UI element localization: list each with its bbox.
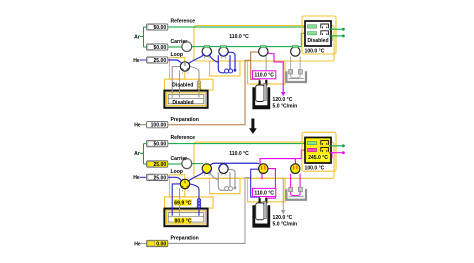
wire furnace outlet line bbox=[265, 57, 267, 82]
svg-text:110.0 °C: 110.0 °C bbox=[254, 190, 274, 196]
svg-text:50.00: 50.00 bbox=[153, 25, 166, 31]
svg-text:Reference: Reference bbox=[171, 135, 196, 141]
wire He preparation supply bbox=[141, 242, 146, 244]
svg-text:He: He bbox=[134, 241, 141, 247]
svg-text:110.0 °C: 110.0 °C bbox=[229, 34, 249, 40]
TCD detector body bbox=[305, 137, 331, 163]
valve V5 (vapor select) bbox=[180, 179, 189, 189]
wire vaporizer middle leg bbox=[179, 188, 181, 210]
wire TCD reference outlet bbox=[329, 28, 343, 30]
mass flow controller carrier bbox=[147, 161, 168, 167]
furnace sample tube stubs bbox=[259, 198, 261, 205]
cold trap vessel bbox=[286, 71, 306, 82]
wire vaporizer middle leg bbox=[179, 71, 181, 93]
wire valve4 riser (magenta) bbox=[294, 159, 296, 165]
furnace sample tube stubs bbox=[259, 81, 261, 88]
wire He supply bbox=[140, 59, 146, 61]
heated valve zone box (110.0 C oven) bbox=[194, 142, 334, 178]
valve V2 (loop select) bbox=[219, 164, 228, 174]
TCD reference cell bbox=[308, 25, 317, 28]
mass flow controller preparation bbox=[147, 122, 168, 128]
wire TCD drain stub bbox=[331, 153, 333, 158]
cold trap tube bbox=[291, 57, 301, 78]
loop vent endpoint bbox=[234, 186, 237, 189]
wire carrier line to loop valve bbox=[168, 163, 203, 165]
wire Ar supply bbox=[140, 144, 146, 164]
furnace vessel bbox=[252, 87, 270, 109]
valve V2 (loop select) bbox=[219, 47, 228, 56]
svg-text:0.00: 0.00 bbox=[156, 241, 166, 247]
svg-text:Carrier: Carrier bbox=[171, 39, 188, 45]
svg-text:Ar: Ar bbox=[134, 151, 140, 157]
heater coil symbol bbox=[197, 81, 200, 84]
mass flow controller reference bbox=[147, 140, 168, 146]
svg-text:Loop: Loop bbox=[171, 169, 183, 175]
loop-valve heater zone box bbox=[170, 175, 185, 197]
svg-text:69.9 °C: 69.9 °C bbox=[174, 200, 191, 206]
furnace zone box bbox=[248, 61, 286, 84]
thermocouple bbox=[264, 83, 267, 100]
svg-text:110.0 °C: 110.0 °C bbox=[254, 73, 274, 79]
valve V3 (sample bypass) bbox=[259, 164, 268, 174]
valve V2 port ticks bbox=[221, 57, 226, 58]
wire loop gas line bbox=[168, 60, 182, 64]
sample loop heater zone box bbox=[210, 178, 241, 193]
wire reference line to TCD bbox=[168, 26, 307, 28]
valve V5 (vapor select) bbox=[180, 62, 189, 71]
wire vaporizer left leg bbox=[172, 67, 180, 93]
wire loop valve to valve V1 bbox=[189, 55, 204, 64]
loop vent endpoint bbox=[234, 69, 237, 72]
wire detector feed line (magenta) bbox=[260, 150, 308, 165]
valve V5 port ticks bbox=[183, 72, 189, 74]
heater coil symbol bbox=[197, 199, 200, 202]
wire furnace inlet line bbox=[251, 169, 260, 201]
wire vaporizer left leg bbox=[172, 184, 180, 210]
wire loop vent line bbox=[229, 169, 236, 186]
valve V1 port ticks bbox=[205, 57, 210, 58]
mass flow controller carrier bbox=[147, 44, 168, 50]
svg-text:25.00: 25.00 bbox=[153, 175, 166, 181]
wire TCD sample outlet bbox=[329, 35, 343, 37]
svg-text:245.0 °C: 245.0 °C bbox=[308, 155, 328, 161]
cold trap tube bbox=[291, 174, 301, 196]
heater zone status label bbox=[174, 199, 193, 205]
vaporizer heater zone box bbox=[165, 79, 214, 90]
transition arrow bbox=[249, 119, 257, 134]
TCD sample cell bbox=[308, 148, 317, 151]
wire loop valve to valve V1 bbox=[189, 172, 204, 181]
svg-text:100.0 °C: 100.0 °C bbox=[305, 166, 325, 172]
svg-text:He: He bbox=[133, 175, 140, 181]
mass flow controller loop bbox=[147, 174, 168, 180]
mass flow controller preparation bbox=[147, 240, 168, 246]
wire TCD reference outlet bbox=[329, 145, 343, 147]
wire furnace outlet line (magenta) bbox=[266, 169, 275, 202]
svg-text:100.0 °C: 100.0 °C bbox=[305, 49, 325, 55]
wire Ar supply bbox=[140, 27, 146, 47]
wire vaporizer dip tubes bbox=[172, 208, 199, 216]
sample loop heater zone box bbox=[210, 61, 241, 76]
vaporizer vessel bbox=[164, 209, 207, 227]
sample loop coil bbox=[218, 172, 225, 190]
mass flow controller loop bbox=[147, 57, 168, 63]
TCD reference cell bbox=[308, 141, 317, 144]
bottom flow diagram (state 2) bbox=[133, 132, 345, 247]
svg-text:Ar: Ar bbox=[134, 34, 140, 40]
svg-text:Disabled: Disabled bbox=[307, 38, 328, 44]
TCD status label bbox=[308, 154, 329, 160]
inline filter bbox=[182, 159, 192, 169]
svg-text:25.00: 25.00 bbox=[153, 162, 166, 168]
valve V3 (sample bypass) bbox=[259, 47, 268, 56]
svg-text:Preparation: Preparation bbox=[171, 117, 199, 123]
sample tube bbox=[256, 203, 264, 220]
svg-text:Preparation: Preparation bbox=[171, 235, 199, 241]
furnace zone box bbox=[248, 178, 286, 202]
svg-text:120.0 °C: 120.0 °C bbox=[273, 215, 293, 221]
vaporizer status label bbox=[174, 218, 192, 224]
valve V4 (trap bypass) bbox=[291, 164, 300, 174]
wire carrier line across valves bbox=[168, 46, 301, 48]
wire valve3 drain stub (magenta) bbox=[261, 170, 263, 179]
wire loop bypass line (blue) bbox=[210, 163, 259, 165]
TCD sample cell bbox=[308, 32, 317, 35]
valve V1 (loop inject) bbox=[202, 164, 211, 174]
cold trap vessel bbox=[286, 189, 306, 200]
furnace temperature box bbox=[253, 188, 276, 196]
wire He supply bbox=[140, 176, 146, 178]
svg-text:100.00: 100.00 bbox=[151, 123, 167, 129]
wire loop vent line bbox=[229, 52, 236, 69]
svg-text:He: He bbox=[134, 123, 141, 129]
wire vaporizer right leg with heater bbox=[190, 184, 200, 210]
sample loop coil bbox=[218, 55, 225, 73]
svg-text:120.0 °C: 120.0 °C bbox=[273, 97, 293, 103]
wire preparation gas line bbox=[168, 178, 251, 244]
svg-text:He: He bbox=[133, 58, 140, 64]
vaporizer vessel bbox=[164, 91, 207, 108]
wire vaporizer right leg with heater bbox=[190, 67, 200, 93]
heated valve zone box (110.0 C oven) bbox=[194, 26, 334, 62]
cold trap fittings bbox=[289, 187, 293, 191]
svg-text:Carrier: Carrier bbox=[171, 156, 188, 162]
valve V1 (loop inject) bbox=[202, 47, 211, 56]
svg-text:Disabled: Disabled bbox=[172, 82, 193, 88]
valve V2 port ticks bbox=[221, 174, 226, 175]
svg-text:Reference: Reference bbox=[171, 19, 196, 25]
valve V5 port ticks bbox=[183, 190, 189, 192]
vaporizer heater zone box bbox=[165, 197, 214, 208]
thermocouple bbox=[264, 201, 267, 218]
wire vent line (inactive) bbox=[282, 178, 284, 211]
mass flow controller reference bbox=[147, 24, 168, 30]
svg-text:5.0 °C/min: 5.0 °C/min bbox=[273, 103, 298, 109]
wire furnace inlet line bbox=[251, 52, 260, 83]
wire reference line to TCD bbox=[168, 143, 307, 145]
svg-text:Loop: Loop bbox=[171, 52, 183, 58]
wire preparation gas line bbox=[168, 60, 251, 124]
wire loop gas line bbox=[168, 177, 182, 181]
loop-valve heater zone box bbox=[170, 58, 185, 80]
svg-text:80.0 °C: 80.0 °C bbox=[174, 218, 191, 224]
svg-text:50.00: 50.00 bbox=[153, 45, 166, 51]
vent arrow (inactive) bbox=[281, 210, 285, 214]
top flow diagram (state 1) bbox=[133, 16, 345, 129]
svg-text:25.00: 25.00 bbox=[153, 58, 166, 64]
cold trap fittings bbox=[289, 70, 293, 74]
wire He preparation supply bbox=[141, 124, 146, 126]
wire vaporizer dip tubes bbox=[172, 90, 199, 98]
valve V4 (trap bypass) bbox=[291, 47, 300, 56]
svg-text:50.00: 50.00 bbox=[153, 141, 166, 147]
furnace vessel bbox=[252, 205, 270, 227]
svg-text:110.0 °C: 110.0 °C bbox=[229, 151, 249, 157]
wire TCD sample inlet riser bbox=[301, 33, 307, 46]
valve V1 to sample loop connector bbox=[209, 55, 218, 62]
sample tube bbox=[256, 85, 264, 102]
svg-text:Disabled: Disabled bbox=[172, 100, 193, 106]
wire TCD drain stub bbox=[331, 36, 333, 41]
wire sample vent line (magenta) bbox=[268, 53, 284, 93]
TCD zone box bbox=[302, 16, 336, 54]
valve V1 port ticks bbox=[205, 174, 210, 175]
TCD detector body bbox=[305, 21, 331, 46]
svg-text:5.0 °C/min: 5.0 °C/min bbox=[273, 222, 298, 228]
wire TCD sample outlet bbox=[329, 152, 343, 154]
furnace temperature box bbox=[253, 71, 276, 79]
inline filter bbox=[182, 42, 192, 52]
TCD zone box bbox=[302, 132, 336, 171]
sample vent arrow bbox=[281, 92, 285, 96]
valve V1 to sample loop connector bbox=[209, 173, 218, 180]
